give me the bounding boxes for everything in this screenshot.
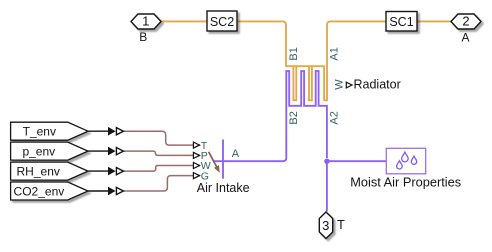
- svg-text:2: 2: [462, 13, 469, 28]
- svg-text:SC1: SC1: [389, 15, 413, 29]
- svg-text:A2: A2: [328, 111, 340, 124]
- svg-text:T: T: [337, 218, 345, 232]
- svg-text:B2: B2: [288, 111, 300, 124]
- svg-text:Air Intake: Air Intake: [197, 181, 250, 195]
- svg-text:B1: B1: [288, 47, 300, 60]
- svg-text:p_env: p_env: [22, 144, 55, 158]
- svg-text:A1: A1: [328, 47, 340, 60]
- svg-text:Radiator: Radiator: [354, 78, 401, 92]
- svg-text:RH_env: RH_env: [17, 164, 60, 178]
- svg-text:W: W: [334, 79, 346, 90]
- svg-text:A: A: [461, 31, 469, 45]
- svg-text:A: A: [232, 148, 240, 160]
- svg-text:B: B: [139, 30, 147, 44]
- svg-text:Moist Air Properties: Moist Air Properties: [350, 174, 461, 189]
- svg-text:SC2: SC2: [210, 15, 234, 29]
- svg-text:3: 3: [322, 218, 329, 233]
- svg-text:1: 1: [142, 13, 149, 28]
- svg-text:CO2_env: CO2_env: [14, 184, 65, 198]
- svg-text:T_env: T_env: [23, 125, 56, 139]
